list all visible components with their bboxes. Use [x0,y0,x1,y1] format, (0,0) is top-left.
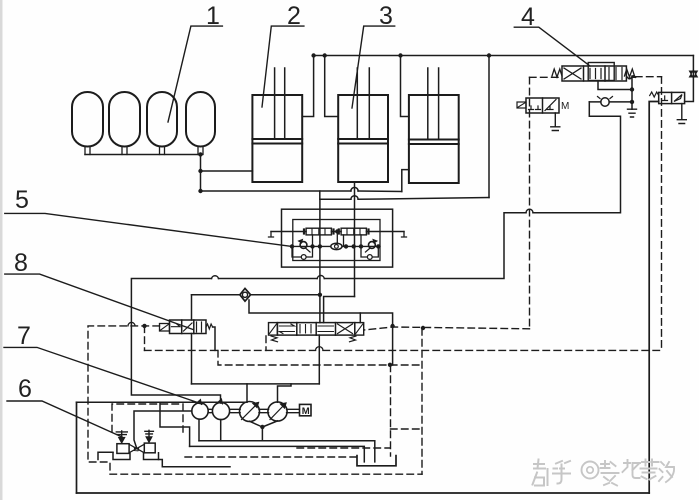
relief feed wire from tank top [134,411,192,448]
dashed junction dots [142,324,425,367]
right spring [350,336,357,342]
right down wire to valve2 [685,56,694,102]
accumulator 3 [147,92,177,147]
leader line 1 [168,26,222,122]
accumulator manifold [85,154,201,156]
at sign [582,462,599,479]
cell3 lines [318,326,334,332]
check valve diamond [240,288,251,301]
solenoid box left [517,102,526,108]
leader line 2 [262,26,304,107]
block inner box [293,220,380,261]
cylinder 2 piston [338,139,388,144]
wire A acc line [201,190,402,193]
dashed branch down y365 [218,350,422,365]
check mark on right wire [689,70,697,78]
accumulator 2 [109,92,140,147]
accumulator 4 [186,92,215,147]
wire acc down [200,155,202,192]
branch diamond to y313 [249,300,393,365]
cell right arrows [609,68,622,80]
pilot valve right [341,228,366,235]
accumulator 1 [72,92,103,147]
dashed valve4 spring to left [530,76,559,78]
motor M box [300,404,312,415]
svg-text:6: 6 [18,375,32,403]
pump3/4 drains [250,421,278,441]
pump P2 [212,402,229,419]
valve body [277,323,354,336]
pump4 riser [278,384,292,402]
valve4 A-port wire [598,81,632,90]
dashed to big valve right pilot [364,327,530,330]
pump P1 [192,403,208,419]
hop over dashed 529 [526,209,533,212]
solenoid box [160,324,170,332]
cylinder 2 body [338,95,388,182]
stubs valves to lower line [313,232,362,247]
dashed vertical 529 [529,77,531,328]
dashed relief box [112,404,183,432]
bracket A [113,453,130,460]
return line 1 [199,441,375,462]
pilot check circle [601,98,609,106]
cross links [129,444,144,453]
spring right [206,324,213,329]
leader line 4 [514,27,590,66]
right pilot loop [361,246,378,257]
spring right W [625,69,635,77]
block right vertical jog to valve [324,297,355,323]
spring left W [552,69,562,77]
dashed y429 link [391,428,423,430]
leader line 6 [7,401,122,437]
riser cyl3 left port [401,56,409,117]
block dots [290,229,381,248]
wire long line [131,102,620,403]
li char [601,461,619,486]
bottom port riser [318,335,320,384]
dashed valve4 right to valve2 [636,76,662,78]
leader line 3 [352,26,395,108]
pump3 riser [246,384,248,402]
cell marks [529,100,557,111]
bottom riser [191,334,193,384]
relief valve A body [117,444,129,454]
cylinder 2 rod [357,68,369,139]
meng char [641,460,659,480]
hop small at 215 [212,276,219,279]
dashed y448 [297,447,390,449]
pump2 drain [220,420,222,441]
cylinder 1 piston [252,139,302,144]
svg-text:M: M [561,101,569,112]
bracket B [144,453,159,460]
valve3 tank [551,113,560,131]
xi char [659,462,674,482]
return line 2 [190,446,365,462]
cell center blocked [590,69,601,79]
zhi char [533,460,548,486]
dashed vertical 422 [421,329,423,475]
tank symbol [357,456,396,466]
wire lower line to bus riser [320,191,489,199]
relief valve A spring tee [116,431,127,437]
center flow comp [331,243,342,249]
left actuator box [269,323,278,336]
block outer box [282,209,393,267]
leader line 7 [4,347,202,404]
wire left edge [76,402,78,493]
big valve right actuator riser [359,313,361,323]
lower line [292,245,380,247]
riser cyl1 right port [302,56,313,117]
wire check line [192,294,320,296]
cylinder 3 body [409,95,459,183]
left pilot loop [292,246,313,257]
check line wire [589,101,632,103]
pedestal [98,452,230,467]
junction dots [630,87,634,104]
check right [369,242,376,249]
wire bottom edge [77,492,650,494]
hu char [553,461,570,484]
feed from relief [160,403,190,447]
riser cyl2 left port [325,56,339,117]
cell2 blocked [300,325,311,334]
dashed 391 to tank [390,365,392,456]
svg-text:5: 5 [15,186,29,214]
cell1 arrows [279,324,294,334]
valve U4 body [562,66,626,81]
dashed y457 [185,456,356,458]
riser accumulator line to bus [488,56,490,198]
pump1 drain [198,419,200,441]
valve8 body [170,320,207,334]
left hook [269,232,274,238]
cyl2 bottom stem [354,182,356,297]
wire acc to cyl1 left port [201,170,253,172]
left spring [271,336,278,342]
valve body [526,98,559,113]
cell marks [662,95,682,102]
wire right edge tall [649,102,659,494]
valve U4 pilot overlay box [588,63,614,81]
dashed vertical to valve8 pilot [144,326,146,351]
valve2 tank [677,104,686,124]
line valve8/bigvalve to pumps [192,383,320,385]
cell marks [172,322,202,332]
hop lower line over stem [351,196,358,200]
hua char [623,460,641,478]
leader line 5 [5,213,292,246]
wire through pilot valves [271,231,404,233]
top bus wire [314,55,694,57]
cyl3 notch port [402,170,409,192]
hop A-line over stem [351,187,358,191]
svg-text:7: 7 [17,322,31,350]
relief valve B body [144,443,155,453]
shafts [208,409,299,412]
accumulator stems [85,147,203,155]
cell X arrows [564,68,581,79]
wire top-left segment [77,401,248,403]
cylinder 1 body [252,95,302,182]
valve body [659,92,685,103]
node A dots [198,53,491,193]
dashed vertical 661 [661,77,663,351]
cell4 X [338,324,353,334]
hop on dashed over 131 [128,322,135,326]
spring W left [650,92,659,97]
relief valve B spring tee [145,430,154,436]
cylinder 1 rod [275,68,285,139]
svg-text:M: M [302,406,310,417]
dots [318,293,322,297]
cylinder 3 rod [428,68,439,140]
dashed long return line [145,349,662,351]
pilot valve left [306,228,331,235]
dashed big valve left pilot [265,336,267,350]
valve4 right wire [628,76,636,109]
pump P4 variable [268,402,287,421]
valve8 top riser [191,295,193,320]
svg-text:8: 8 [14,249,28,277]
check left [300,242,307,249]
right hook [402,232,407,238]
dashed left box [88,326,160,474]
dashed bottom long [110,473,422,475]
right wire down [213,327,215,350]
pump P3 variable [240,402,260,422]
block left vertical [319,199,321,322]
hop on dashed over 319 [316,347,324,351]
cylinder 3 piston [409,140,459,145]
leader line 8 [5,274,193,329]
valve4 tank symbol [628,109,637,117]
right actuator box [355,323,364,336]
hop over block vertical [317,275,324,278]
